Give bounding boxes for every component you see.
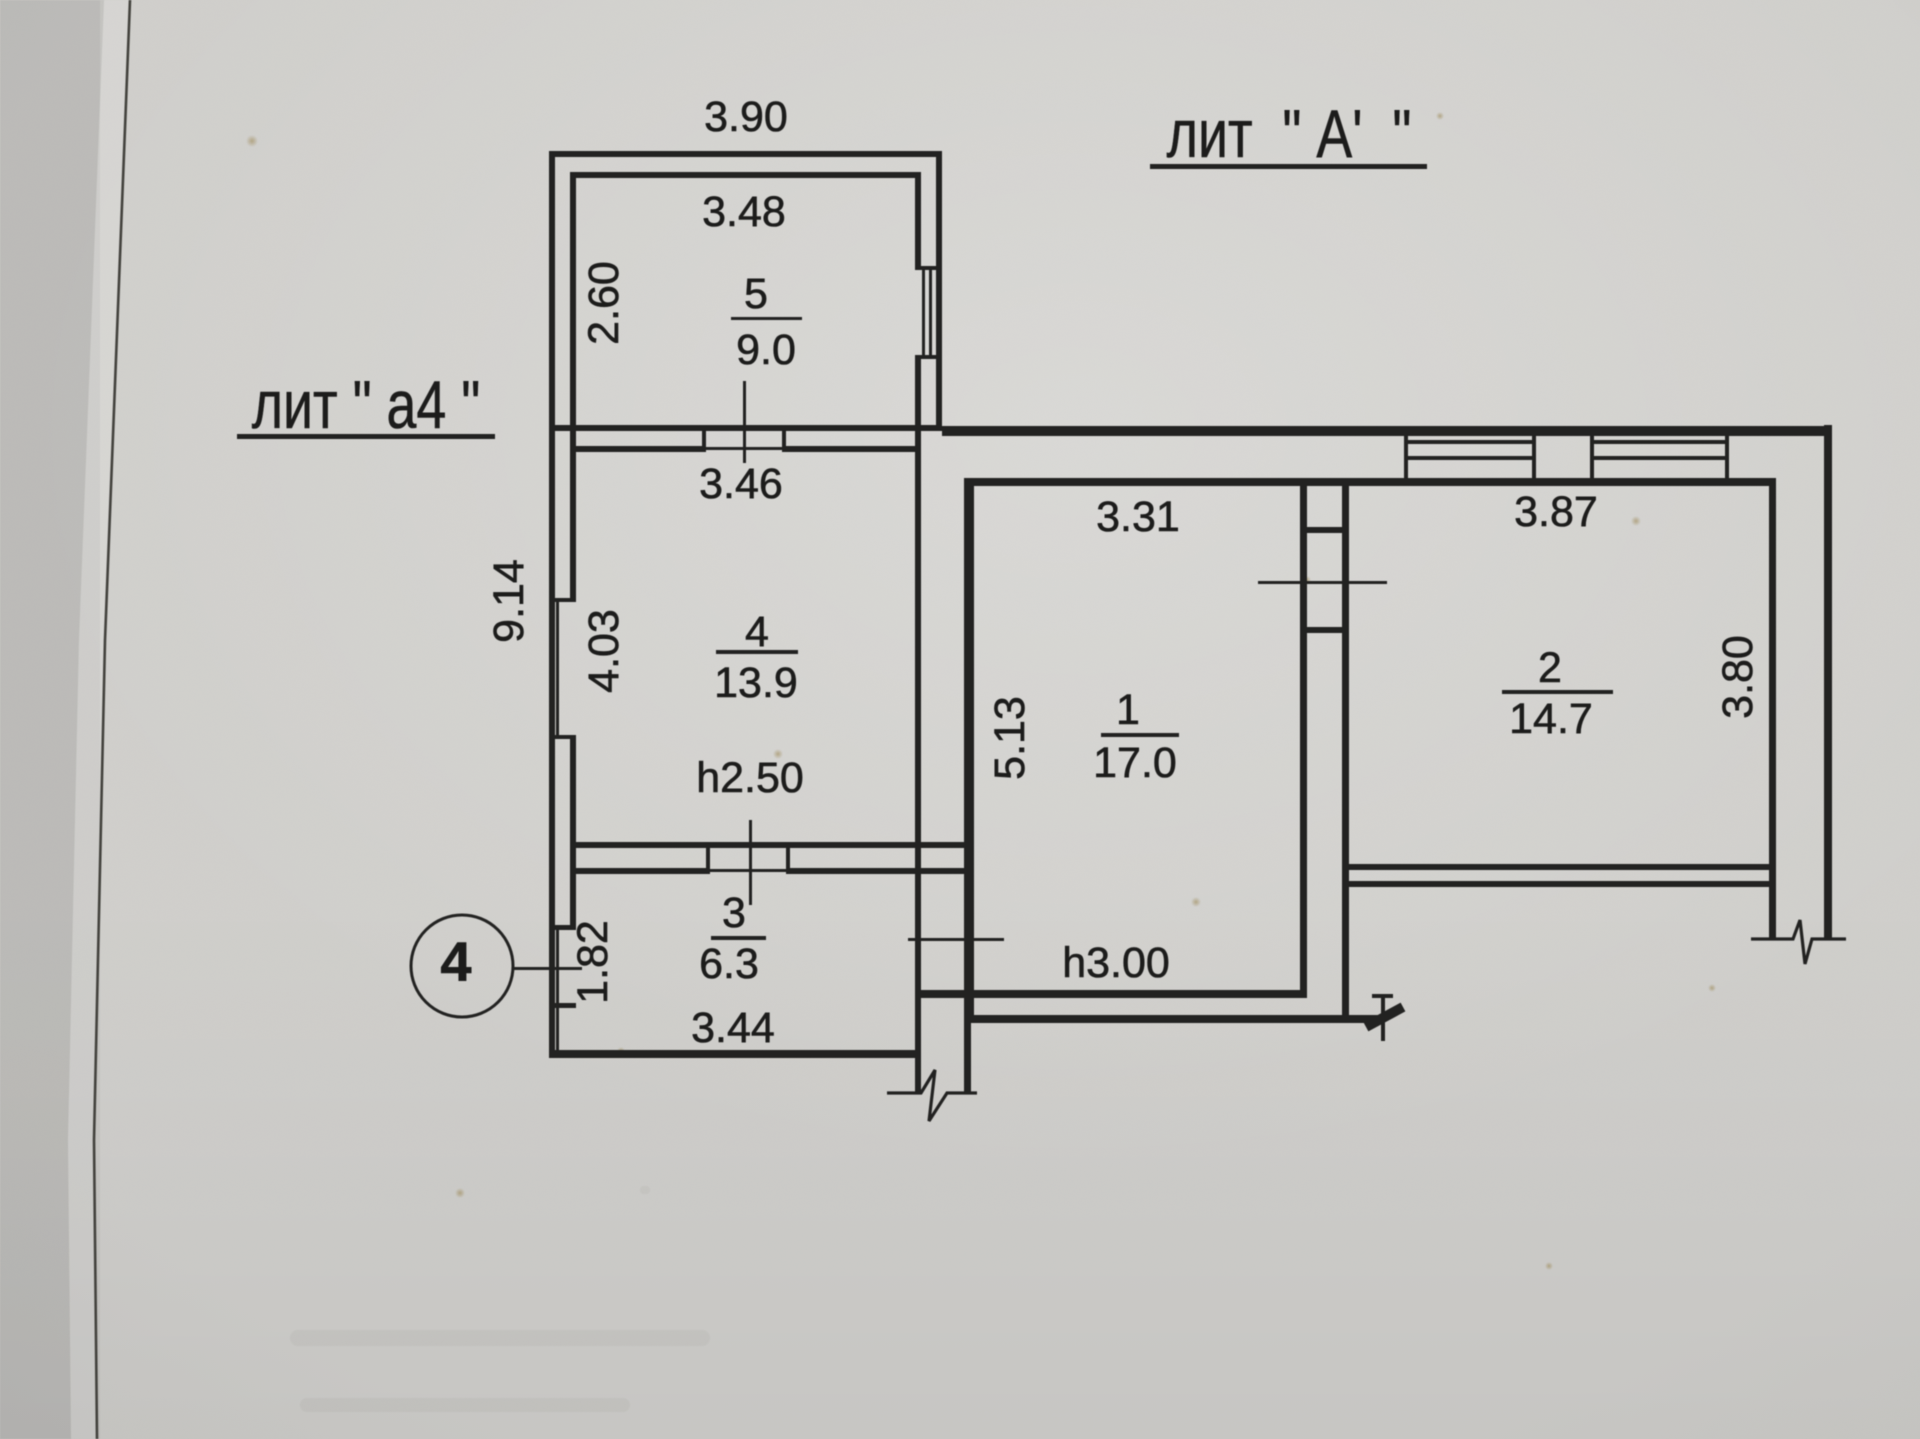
paper edge line	[94, 0, 130, 1439]
window W5 jambs	[1404, 432, 1408, 478]
wall: a4-block right inner line upper segment (room 5)	[915, 172, 921, 266]
wall: divider rooms 5/4 lower line, right of door	[786, 446, 921, 452]
leader line from room 4 label to door D2	[749, 820, 752, 905]
wall: divider rooms 4/3 upper line	[570, 842, 964, 848]
wall: a4-block right outer line (beside room 5)	[936, 151, 942, 431]
wall: room 2 bottom, upper line	[1349, 864, 1776, 870]
window W1 jamb top (left wall room 4)	[551, 598, 576, 602]
wall: divider rooms 5/4 + main top wall outer line	[549, 425, 942, 431]
wall: room 2 right outer line	[1824, 425, 1832, 940]
door D4 threshold thin line (between room 3 area and room 1)	[908, 938, 1004, 941]
wall: room 1 left wall (thick single line)	[964, 478, 974, 1022]
wall: left exterior inner line, segment between windows	[570, 739, 576, 925]
cut mark at end of room 1 bottom wall	[1366, 996, 1403, 1041]
door D1 threshold thin line	[706, 447, 782, 450]
wall: room 1 left face lower continuation to break	[964, 1022, 971, 1092]
wall: left exterior inner line, segment beside rooms 5 and 4	[570, 172, 576, 598]
room 5 fraction line	[731, 317, 802, 320]
wall: right face of rooms 5/4/3 block, long segment down to break	[915, 359, 921, 1093]
window W2/W3 middle jamb	[551, 1003, 576, 1008]
break symbol (bottom of wall between room 3 and room 1)	[887, 1070, 977, 1121]
room 4 fraction line	[716, 650, 798, 654]
door D2 jamb left (between rooms 4 and 3)	[706, 842, 710, 874]
room 1 fraction line	[1101, 733, 1179, 737]
title: лит " А' "	[1150, 96, 1427, 171]
window W4 jamb top (right wall room 5)	[915, 266, 942, 270]
break symbol (bottom of room 2 right wall)	[1751, 920, 1846, 964]
room 2 fraction line	[1502, 690, 1613, 694]
door D3 rung top (between rooms 1 and 2)	[1300, 527, 1349, 533]
window W6 thin pane lines (top wall, right window of room 2)	[1590, 440, 1729, 444]
door D2 jamb right	[786, 842, 790, 874]
wall: main block top inner line (rooms 1 and 2)	[964, 478, 1776, 486]
wall: divider rooms 1/2 right face	[1342, 485, 1349, 1022]
wall: divider rooms 4/3 lower line, left of door	[570, 868, 706, 874]
window W2 thin pane line	[556, 930, 559, 1003]
wall: room 1 bottom inner line	[915, 990, 1307, 998]
window W4 thin pane lines	[922, 270, 925, 355]
window W3 thin pane line	[556, 1008, 559, 1050]
window W1 jamb bottom	[551, 735, 576, 739]
leader line from level mark circle	[513, 967, 582, 970]
leader line from room 5 label to door D1	[743, 381, 746, 463]
window W6 jambs	[1590, 432, 1594, 478]
window W2 jamb top (left wall room 3)	[551, 925, 576, 930]
door D3 threshold thin line	[1258, 581, 1387, 584]
door D3 rung bottom	[1300, 627, 1349, 633]
faint bleed-through marks	[290, 1186, 710, 1412]
wall: room 2 bottom, lower line	[1349, 881, 1776, 887]
wall: room 5 top exterior, outer line	[549, 151, 942, 157]
window W1 thin pane line	[556, 602, 559, 735]
level mark circle 4	[411, 915, 513, 1017]
wall: room 3 bottom exterior line	[549, 1050, 921, 1058]
title: лит " а4 "	[237, 367, 495, 442]
faint stains on paper	[246, 112, 1716, 1270]
window W5 thin pane lines (top wall, left window of room 2)	[1404, 440, 1536, 444]
wall: divider rooms 4/3 lower line, right of door	[790, 868, 964, 874]
window W4 jamb bottom	[915, 355, 942, 359]
wall: divider rooms 1/2 left face	[1300, 485, 1307, 997]
door D1 jamb right	[782, 425, 786, 452]
wall: divider rooms 5/4 lower line, left of door	[570, 446, 702, 452]
wall: room 1 bottom outer line	[964, 1015, 1385, 1023]
wall: left exterior outer line (rooms 5/4/3)	[549, 151, 555, 1058]
wall: room 2 right inner line	[1769, 478, 1776, 940]
wall: room 5 top exterior, inner line	[570, 172, 921, 178]
door D2 threshold thin line	[710, 869, 786, 872]
room 3 fraction line	[711, 936, 766, 940]
door D1 jamb left (between rooms 5 and 4)	[702, 425, 706, 452]
paper edge shading band (left margin of photographed sheet)	[0, 0, 130, 1439]
